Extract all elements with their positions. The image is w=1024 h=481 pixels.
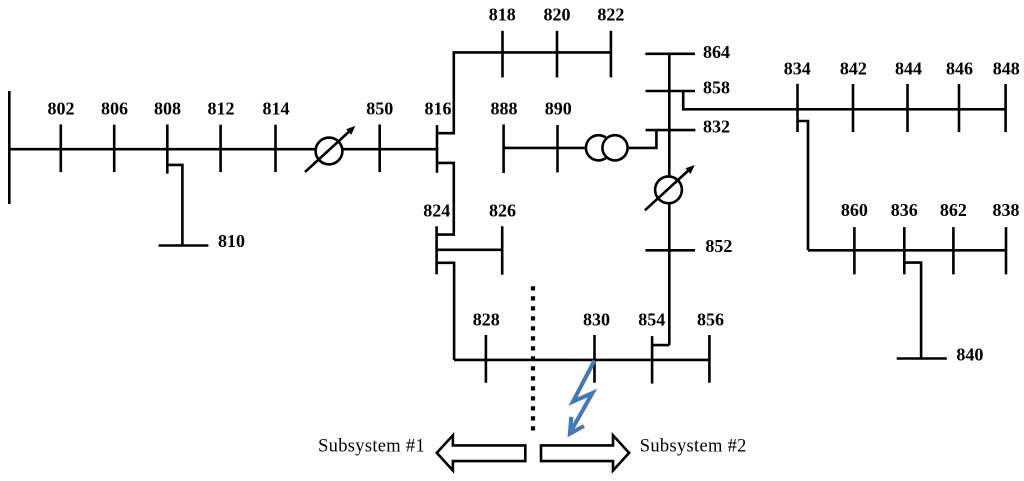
svg-text:890: 890 xyxy=(545,98,572,118)
node 838 xyxy=(1005,227,1008,274)
voltage regulator VR2 xyxy=(645,165,695,210)
svg-text:848: 848 xyxy=(993,59,1020,79)
node 828 xyxy=(485,335,488,383)
node 806 xyxy=(113,125,116,172)
svg-text:808: 808 xyxy=(154,98,181,118)
wire 824 to 826 xyxy=(437,249,503,252)
svg-text:850: 850 xyxy=(366,98,393,118)
bus labels xyxy=(48,5,1020,330)
node 840 xyxy=(897,357,947,360)
svg-text:820: 820 xyxy=(544,5,571,25)
node 808 xyxy=(166,125,169,174)
wire 824 to 828-line xyxy=(437,263,455,360)
node 856 xyxy=(708,335,711,383)
svg-text:836: 836 xyxy=(891,200,918,220)
node 822 xyxy=(610,31,613,78)
node 864 xyxy=(645,52,695,55)
svg-text:812: 812 xyxy=(208,98,235,118)
node 810 xyxy=(159,244,209,247)
wire 888 to transformer xyxy=(504,147,585,150)
svg-text:814: 814 xyxy=(263,98,290,118)
svg-text:864: 864 xyxy=(703,42,730,62)
svg-text:Subsystem #1: Subsystem #1 xyxy=(318,437,425,457)
node 818 xyxy=(501,31,504,78)
node 820 xyxy=(556,31,559,78)
node 862 xyxy=(952,227,955,274)
node 826 xyxy=(501,226,504,275)
svg-text:824: 824 xyxy=(423,200,450,220)
svg-text:854: 854 xyxy=(638,310,665,330)
svg-text:828: 828 xyxy=(473,310,500,330)
node 846 xyxy=(958,84,961,132)
node 830 xyxy=(593,335,596,383)
wire 860-836-862-838 line xyxy=(808,249,1006,252)
node 844 xyxy=(906,84,909,132)
wire 828-830-854-856 line xyxy=(454,359,709,362)
node 890 xyxy=(556,125,559,172)
fault lightning arrow at 830 xyxy=(570,361,595,434)
svg-text:862: 862 xyxy=(940,200,967,220)
svg-text:830: 830 xyxy=(583,310,610,330)
node 850 xyxy=(378,125,381,173)
svg-text:856: 856 xyxy=(697,310,724,330)
node 848 xyxy=(1004,84,1007,132)
svg-text:810: 810 xyxy=(218,231,245,251)
node 860 xyxy=(853,227,856,274)
wire 816 to 818-branch xyxy=(437,52,611,133)
svg-text:888: 888 xyxy=(491,98,518,118)
svg-text:832: 832 xyxy=(703,117,730,137)
node 802 xyxy=(59,124,62,172)
wire 834 to 860-line xyxy=(798,121,809,250)
subsystem #2 arrow xyxy=(541,435,629,470)
svg-text:834: 834 xyxy=(784,59,811,79)
node 852 xyxy=(646,249,696,252)
node 836 xyxy=(903,227,906,274)
wire 836 to 840 xyxy=(904,263,921,359)
svg-text:860: 860 xyxy=(841,200,868,220)
node 816 xyxy=(436,125,439,173)
substation source bar xyxy=(8,91,11,204)
svg-text:842: 842 xyxy=(840,59,867,79)
node 824 xyxy=(435,226,438,274)
svg-text:846: 846 xyxy=(946,59,973,79)
svg-text:802: 802 xyxy=(48,98,75,118)
node 888 xyxy=(502,125,505,174)
node 842 xyxy=(852,84,855,132)
svg-text:Subsystem #2: Subsystem #2 xyxy=(640,437,747,457)
node 814 xyxy=(274,125,277,172)
voltage regulator VR1 xyxy=(305,126,355,172)
svg-text:838: 838 xyxy=(993,200,1020,220)
svg-text:818: 818 xyxy=(489,5,516,25)
wire 816 to 824 xyxy=(437,163,454,235)
wire central 864-858-832-852-854 xyxy=(668,54,671,345)
svg-text:844: 844 xyxy=(895,59,922,79)
node 832 xyxy=(646,129,696,132)
wire transformer to 832 xyxy=(629,130,656,148)
svg-text:826: 826 xyxy=(489,200,516,220)
node 812 xyxy=(219,125,222,172)
transformer XFM-1 xyxy=(586,135,611,160)
subsystem #1 arrow xyxy=(437,435,526,470)
svg-text:816: 816 xyxy=(425,98,452,118)
node 858 xyxy=(646,90,696,93)
wire main feeder 802-816 xyxy=(9,148,437,151)
svg-text:806: 806 xyxy=(101,98,128,118)
wire 858 to 834-line xyxy=(683,91,1005,109)
wire 852-line to 854 xyxy=(652,344,669,347)
svg-text:852: 852 xyxy=(705,236,732,256)
node 834 xyxy=(796,84,799,132)
svg-text:822: 822 xyxy=(597,5,624,25)
node 854 xyxy=(651,336,654,384)
svg-text:840: 840 xyxy=(956,345,983,365)
subsystem boundary dotted line xyxy=(531,286,535,430)
wire 808 to 810 xyxy=(167,165,182,246)
svg-text:858: 858 xyxy=(703,78,730,98)
